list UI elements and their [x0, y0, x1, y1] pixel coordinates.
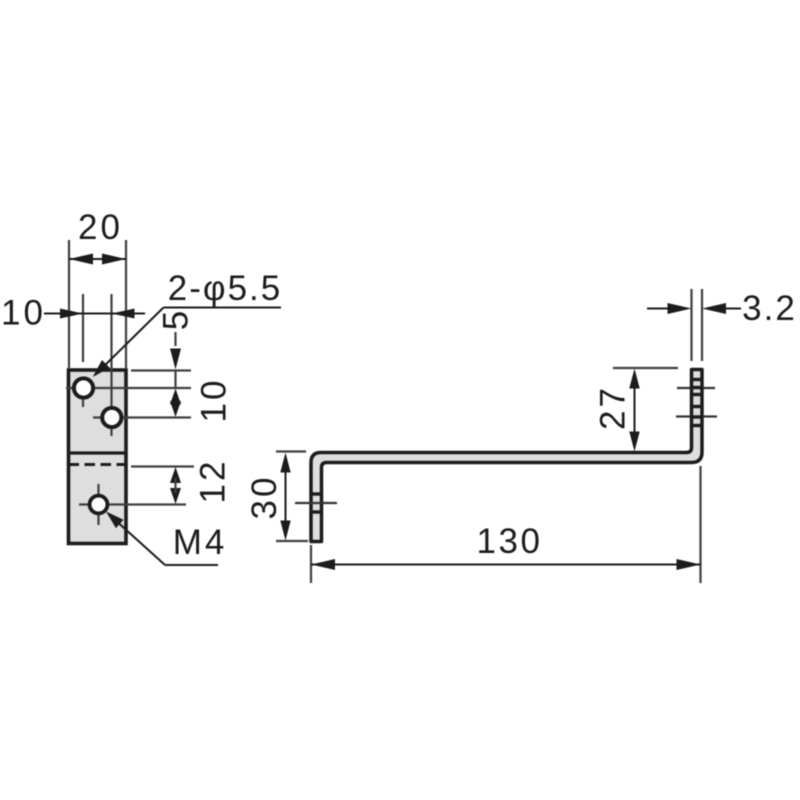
right leg hole centerlines [677, 387, 715, 389]
svg-text:M4: M4 [173, 523, 228, 562]
hole column line H1 vertical [82, 294, 84, 362]
svg-text:2-φ5.5: 2-φ5.5 [168, 269, 282, 308]
plate body [69, 370, 127, 544]
extension line bend dashed (right) [131, 465, 194, 467]
dimension 30 extension lines [276, 450, 306, 452]
dimension 3.2 extension lines [690, 289, 692, 361]
right leg hole bands (2-5.5 side view) [690, 378, 704, 381]
dimension 10 (hole offset) line [44, 313, 145, 315]
svg-text:20: 20 [78, 208, 123, 247]
svg-text:5: 5 [157, 311, 196, 330]
svg-text:130: 130 [477, 522, 543, 561]
hole 3 (M4) [90, 496, 108, 514]
dimension 30 line and arrows [285, 471, 287, 522]
hole centerline H2 horizontal [93, 416, 191, 418]
left leg hole centerline [295, 502, 337, 504]
svg-text:3.2: 3.2 [742, 289, 797, 328]
label 2-phi5.5 underline [164, 307, 282, 309]
hole centerline H3 horizontal [79, 503, 186, 505]
extension line plate right edge [125, 240, 127, 368]
label M4 underline [165, 564, 218, 566]
dimension 130 extension lines [310, 545, 312, 583]
bend line (dashed) [69, 463, 127, 466]
bend tangent line (solid) [69, 451, 127, 454]
leader to hole 3 [108, 514, 165, 566]
extension line plate left edge [68, 240, 70, 368]
dimension 3.2 arrows [647, 308, 668, 310]
hole 2 (5.5 dia) [102, 408, 121, 427]
bracket profile [311, 370, 702, 542]
svg-text:10: 10 [195, 378, 234, 423]
svg-text:12: 12 [194, 459, 233, 504]
hole column line H2 vertical [110, 294, 112, 436]
hole H3 vertical centerline [97, 484, 99, 525]
dimension 10 vertical arrows [170, 389, 181, 405]
svg-text:10: 10 [1, 294, 46, 333]
svg-text:27: 27 [594, 385, 633, 430]
extension line plate top (right) [131, 369, 191, 371]
leader to hole 1 [95, 308, 164, 376]
hole 1 (top, 5.5 dia) [74, 378, 93, 397]
dimension 5 column [174, 332, 176, 346]
dimension 20 line [69, 258, 126, 260]
svg-text:30: 30 [245, 475, 284, 520]
dimension 27 extension line [613, 367, 678, 369]
dimension 27 line and arrows [634, 387, 636, 433]
hole centerline H1 horizontal [66, 387, 191, 389]
dimension 12 arrows [170, 467, 181, 483]
left leg hole bands (M4 side view) [310, 492, 324, 495]
dimension 130 line and arrows [311, 564, 701, 566]
